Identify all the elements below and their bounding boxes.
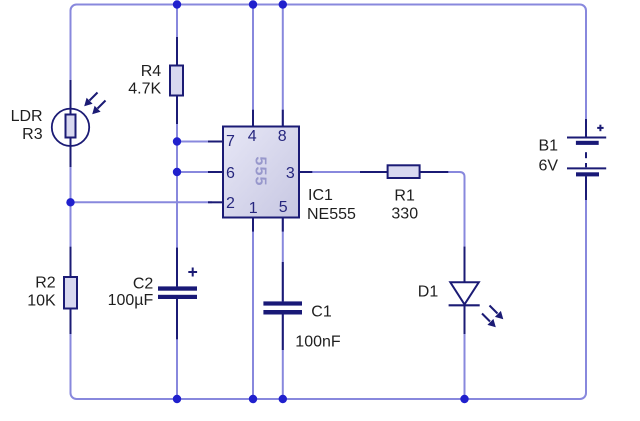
IC1 pin6 stub (208, 171, 223, 173)
node bottom pin1 junction (249, 395, 257, 403)
LED D1 bottom lead (464, 305, 466, 334)
LED D1 triangle (450, 282, 479, 304)
svg-text:3: 3 (286, 165, 295, 182)
op-amp/timer IC1 pin7 stub (208, 141, 223, 143)
LDR R3 internal stubs (70, 109, 72, 115)
svg-text:D1: D1 (418, 284, 439, 301)
LDR R3 circle (52, 109, 89, 146)
battery B1 plus sign (597, 125, 603, 132)
wire pin6 row (177, 171, 212, 173)
svg-text:IC1: IC1 (308, 187, 333, 204)
node bottom C1 junction (279, 395, 287, 403)
resistor R1 right lead (420, 171, 449, 173)
IC1 pin2 stub (208, 201, 223, 203)
svg-text:555: 555 (252, 156, 269, 186)
resistor R2 bottom lead (70, 309, 72, 335)
node bottom LED junction (460, 395, 468, 403)
svg-text:6V: 6V (539, 158, 559, 175)
svg-text:8: 8 (278, 128, 287, 145)
svg-text:6: 6 (226, 165, 235, 182)
svg-text:4.7K: 4.7K (128, 81, 161, 98)
LED D1 light arrow 1 (490, 306, 504, 320)
resistor R2 body (64, 277, 77, 309)
IC1 555 timer body (223, 127, 299, 218)
IC1 pin4 stub (252, 110, 254, 127)
capacitor C2 plates (158, 286, 197, 290)
node top pin4 junction (249, 0, 257, 8)
battery B1 dashed middle (585, 152, 587, 158)
node top pin8 junction (279, 0, 287, 8)
capacitor C2 plus sign (188, 268, 197, 277)
wire mask under battery middle (584, 139, 589, 177)
battery B1 bottom lead (585, 176, 587, 200)
svg-text:R4: R4 (141, 63, 162, 80)
svg-text:B1: B1 (539, 138, 559, 155)
wire pin2 row (71, 201, 213, 203)
svg-text:C2: C2 (133, 276, 154, 293)
battery B1 long plate 1 (567, 137, 606, 139)
svg-text:R3: R3 (22, 126, 43, 143)
wire outer supply loop (71, 5, 587, 400)
svg-text:4: 4 (248, 128, 257, 145)
resistor R2 top lead (70, 247, 72, 277)
resistor R1 body (388, 165, 420, 178)
capacitor C2 bottom lead (176, 299, 178, 339)
battery B1 thick plate 1 (576, 141, 599, 145)
svg-text:7: 7 (226, 133, 235, 150)
battery B1 thick plate 2 (576, 172, 599, 176)
node top R4 junction (173, 0, 181, 8)
capacitor C1 bottom lead (282, 315, 284, 351)
svg-text:R2: R2 (35, 275, 56, 292)
LED D1 cathode bar (449, 304, 480, 306)
IC1 pin3 stub (299, 171, 312, 173)
resistor R4 body (170, 66, 183, 96)
battery B1 top lead (585, 119, 587, 138)
wire mask under C1 gap (280, 305, 285, 312)
wire pin7 row (177, 141, 212, 143)
IC1 pin8 stub (282, 110, 284, 127)
capacitor C2 top lead (176, 248, 178, 287)
node pin6 junction (173, 168, 181, 176)
svg-text:5: 5 (279, 199, 288, 216)
svg-text:10K: 10K (27, 293, 56, 310)
wire vertical net at x=253 (pin4/pin1 branch) (252, 5, 254, 400)
svg-text:100nF: 100nF (295, 334, 341, 351)
LDR R3 top lead (70, 80, 72, 109)
node pin2 left junction (66, 198, 74, 206)
LDR R3 body (66, 115, 76, 138)
wire vertical net at x=177 (R4/C2 branch) (176, 5, 178, 400)
LDR light arrow 2 (92, 101, 105, 115)
svg-text:LDR: LDR (11, 108, 43, 125)
node bottom C2 junction (173, 395, 181, 403)
svg-text:R1: R1 (394, 188, 415, 205)
IC1 pin1 stub (252, 218, 254, 232)
resistor R1 left lead (360, 171, 388, 173)
svg-text:2: 2 (226, 195, 235, 212)
svg-text:100µF: 100µF (108, 292, 154, 309)
wire vertical net at x=282.8 (pin8/pin5/C1 branch) (282, 5, 284, 400)
resistor R4 top lead (176, 37, 178, 66)
svg-text:330: 330 (391, 206, 418, 223)
LED D1 light arrow 2 (482, 314, 496, 328)
svg-text:C1: C1 (311, 304, 332, 321)
wire mask under C2 gap (175, 290, 180, 296)
LDR R3 bottom lead (70, 147, 72, 168)
capacitor C1 top lead (282, 262, 284, 301)
battery B1 long plate 2 (567, 167, 606, 169)
resistor R4 bottom lead (176, 96, 178, 125)
capacitor C1 plates (263, 301, 302, 305)
svg-text:1: 1 (249, 200, 258, 217)
LDR light arrow 1 (84, 93, 97, 107)
IC1 pin5 stub (282, 218, 284, 232)
svg-text:NE555: NE555 (307, 206, 356, 223)
node pin7 junction (173, 137, 181, 145)
LED D1 top lead (464, 247, 466, 283)
wire pin3 output row to LED branch (299, 172, 465, 399)
